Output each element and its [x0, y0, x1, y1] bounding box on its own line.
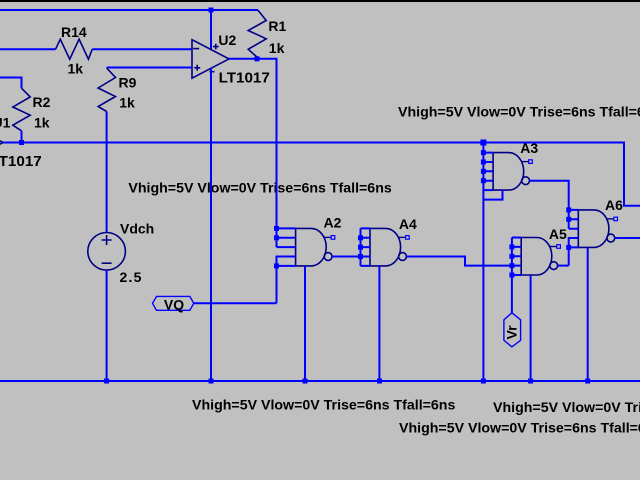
gate A3 [493, 140, 538, 190]
node junction A4 row2 [358, 235, 363, 240]
svg-text:Vhigh=5V Vlow=0V Trise=6ns Tfa: Vhigh=5V Vlow=0V Trise=6ns Tfall=6ns [128, 180, 391, 196]
gate A6 [578, 197, 623, 248]
node junction A3 row1 [481, 150, 486, 155]
svg-text:A2: A2 [324, 214, 342, 230]
svg-text:1k: 1k [269, 40, 285, 56]
node junction top rail / U2 V+ [209, 8, 214, 13]
node junction A4 row4 [358, 254, 363, 259]
wire A6 output [615, 237, 640, 239]
wire A3 output to A6 [529, 181, 568, 229]
svg-text:A4: A4 [399, 216, 417, 232]
op-amp U2 [192, 40, 229, 78]
svg-text:A6: A6 [605, 197, 623, 213]
wire A5 output to A6 [557, 265, 568, 267]
wire R14 left [0, 48, 56, 50]
wire A4 input bus [361, 228, 371, 266]
svg-text:Vr: Vr [504, 325, 520, 340]
node junction gnd/A3 com [481, 379, 486, 384]
gate A2 [296, 214, 342, 266]
node junction A4 row3 [358, 245, 363, 250]
wire A2 input stubs rows 1-3 [277, 228, 296, 247]
wire Vdch bottom to ground [106, 270, 108, 381]
gate A5 [521, 226, 567, 275]
svg-text:Vhigh=5V Vlow=0V Trise=6ns Tfa: Vhigh=5V Vlow=0V Trise=6ns Tfall=6ns [399, 421, 640, 437]
svg-text:LT1017: LT1017 [219, 69, 270, 86]
wire U1 output long net [3, 143, 640, 206]
svg-text:1k: 1k [34, 115, 50, 131]
wire A2 output to A4 [332, 256, 361, 258]
wire A6 input stubs rows1-3 [569, 210, 579, 229]
node junction A3 row3 [481, 169, 486, 174]
resistor R14 [56, 39, 93, 59]
node junction A3 row2 [481, 160, 486, 165]
svg-text:LT1017: LT1017 [0, 153, 42, 170]
wire top rail [0, 9, 258, 11]
node junction R2 / U1 output [19, 140, 24, 145]
node junction A3 bus top [480, 140, 486, 146]
op-amp U1 (clipped at left edge) [0, 124, 3, 162]
wire A3 com return [483, 190, 502, 200]
svg-text:R1: R1 [268, 18, 286, 34]
svg-text:U1: U1 [0, 115, 11, 131]
resistor R1 [248, 10, 266, 57]
node junction A5 row3 [509, 254, 514, 259]
node junction A2 row2 [274, 235, 279, 240]
node junction A6 row5 [566, 245, 571, 250]
wire A5 input bus down to Vr [512, 238, 521, 313]
svg-text:VQ: VQ [164, 296, 184, 312]
svg-text:Vhigh=5V Vlow=0V Trise=6ns Tfa: Vhigh=5V Vlow=0V Trise=6ns Tfall=6ns [493, 400, 640, 416]
wire U2 V- supply to ground [210, 68, 212, 381]
node junction A2 row1 [274, 226, 279, 231]
wire A2 com to ground [304, 266, 306, 381]
wire VQ to A2 [194, 302, 277, 304]
net flag Vr [504, 313, 521, 347]
wire R2 bottom [21, 131, 23, 143]
wire R1 bottom stub [257, 57, 259, 59]
node junction A6 row2 [566, 217, 571, 222]
svg-text:1k: 1k [68, 60, 84, 76]
node junction gnd/Vdch [104, 379, 109, 384]
wire R9 top to U2 + input [107, 67, 192, 69]
wire R2 top from left [0, 78, 22, 89]
resistor R9 [98, 68, 115, 112]
svg-text:R2: R2 [33, 94, 51, 110]
wire A2 lower bus from VQ [277, 257, 296, 304]
wire U2 V+ supply [210, 10, 212, 50]
wire A4 com to ground [378, 266, 380, 381]
svg-text:Vhigh=5V Vlow=0V Trise=6ns Tfa: Vhigh=5V Vlow=0V Trise=6ns Tfall=6ns [398, 105, 640, 121]
node junction gnd/A4 com [377, 379, 382, 384]
node junction R1 / U2 output [255, 56, 260, 61]
node junction gnd/U2 V- [209, 379, 214, 384]
wire R14 right to U2 - input [92, 48, 192, 50]
node junction A3 row4 [481, 178, 486, 183]
node junction gnd/A2 com [303, 379, 308, 384]
svg-text:U2: U2 [218, 32, 236, 48]
node junction A2 row5 [274, 263, 279, 268]
svg-text:Vhigh=5V Vlow=0V Trise=6ns Tfa: Vhigh=5V Vlow=0V Trise=6ns Tfall=6ns [192, 398, 455, 414]
node junction A5 row2 [509, 244, 514, 249]
svg-text:R9: R9 [119, 75, 137, 91]
wire A3 input bus down to ground [483, 143, 493, 382]
wire A5 com to ground [530, 275, 532, 381]
window top border [0, 0, 640, 2]
svg-text:2.5: 2.5 [120, 269, 143, 285]
wire A6 lower bus from A5 output [569, 238, 579, 266]
svg-text:A5: A5 [549, 226, 567, 242]
wire R9 bottom to Vdch [106, 112, 108, 233]
resistor R2 [13, 88, 30, 131]
wire U2 output to A2 input bus [229, 59, 277, 247]
svg-text:Vdch: Vdch [120, 221, 154, 237]
node junction gnd/A5 com [528, 379, 533, 384]
svg-text:A3: A3 [520, 140, 538, 156]
svg-text:R14: R14 [61, 24, 87, 40]
wire A6 com to ground [587, 247, 589, 381]
wire A4 output jog to A5 [406, 257, 512, 266]
gate A4 [370, 216, 417, 266]
voltage source Vdch [88, 233, 126, 271]
ground bus wire [0, 380, 640, 382]
net flag VQ [153, 296, 194, 310]
node junction A5 row4 [509, 263, 514, 268]
svg-text:1k: 1k [119, 95, 135, 111]
node junction gnd/A6 com [585, 379, 590, 384]
node junction A6 row1 [566, 207, 571, 212]
node junction A5 row5 [509, 273, 514, 278]
